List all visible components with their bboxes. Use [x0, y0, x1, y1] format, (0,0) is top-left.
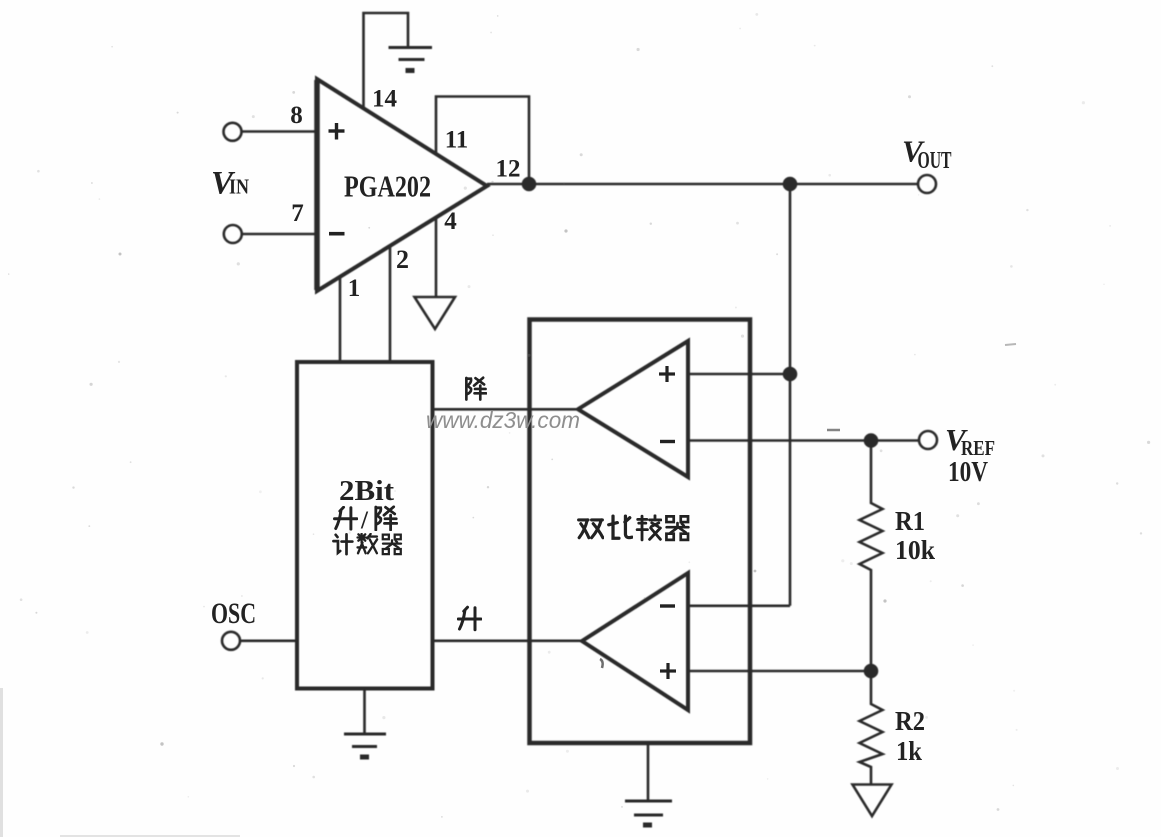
- svg-text:www.dz3w.com: www.dz3w.com: [426, 407, 580, 433]
- svg-text:R2: R2: [895, 706, 925, 736]
- wire comp2 minus: [688, 604, 790, 607]
- opamp plus sign: [329, 123, 345, 140]
- node R1-R2 junction: [865, 665, 877, 677]
- wire pin4: [435, 217, 438, 296]
- terminal circle input+: [224, 123, 242, 141]
- resistor R2: [860, 671, 883, 784]
- ground (top): [389, 48, 433, 71]
- label jiang (down output): [466, 378, 486, 400]
- arrow ground R2: [853, 785, 892, 817]
- wire pin2: [389, 246, 392, 362]
- wire OSC: [241, 639, 297, 642]
- label jishuqi counter line3: [333, 534, 401, 554]
- comparator A1 plus sign: [659, 366, 675, 382]
- wire comp1 minus to VREF: [688, 439, 918, 442]
- wire opamp left edge emphasis: [314, 80, 320, 290]
- arrow ground pin4: [415, 297, 456, 329]
- svg-text:14: 14: [372, 86, 398, 113]
- wire comp1 plus: [688, 373, 790, 376]
- svg-text:PGA202: PGA202: [344, 169, 431, 204]
- svg-text:12: 12: [496, 156, 521, 183]
- wire comp2 plus: [688, 670, 871, 673]
- wire counter ground: [363, 689, 366, 734]
- wire pin14 to ground: [364, 13, 409, 107]
- svg-text:4: 4: [444, 208, 457, 235]
- comparator A1 minus sign: [660, 440, 675, 443]
- svg-text:OUT: OUT: [918, 148, 952, 174]
- resistor R1: [860, 441, 883, 672]
- node output junction: [784, 178, 796, 190]
- wire sheng (up): [433, 639, 583, 642]
- svg-text:IN: IN: [229, 175, 249, 199]
- wire pin1: [339, 276, 342, 362]
- svg-text:10V: 10V: [948, 456, 988, 488]
- svg-text:1: 1: [348, 275, 361, 302]
- svg-text:2Bit: 2Bit: [339, 476, 395, 507]
- svg-text:1k: 1k: [896, 736, 922, 766]
- svg-text:2: 2: [396, 245, 409, 274]
- svg-text:7: 7: [291, 200, 304, 227]
- wire pin7 input: [242, 233, 317, 236]
- svg-text:8: 8: [290, 102, 303, 129]
- ground (comparator): [625, 801, 672, 825]
- comparator A2 triangle: [582, 573, 688, 710]
- terminal circle OSC: [222, 632, 240, 650]
- svg-text:11: 11: [445, 127, 469, 154]
- node pin12 junction: [523, 178, 535, 190]
- wire output: [487, 183, 917, 186]
- terminal circle input-: [224, 225, 242, 243]
- node comp1 plus junction: [784, 368, 796, 380]
- wire comparator ground: [647, 743, 650, 801]
- label sheng (up output): [458, 607, 481, 630]
- wire pin8 input: [242, 130, 317, 133]
- terminal circle VOUT: [918, 175, 936, 193]
- svg-text:/: /: [360, 507, 369, 534]
- svg-text:OSC: OSC: [211, 597, 256, 630]
- label sheng/jiang counter line2: [334, 507, 396, 534]
- wire pin11 feedback to pin12: [436, 97, 529, 185]
- comparator box: [530, 320, 751, 744]
- svg-text:10k: 10k: [895, 535, 935, 565]
- counter box: [297, 362, 433, 689]
- wire vout down: [789, 184, 792, 606]
- comparator A2 minus sign: [660, 604, 675, 607]
- opamp minus sign: [329, 232, 345, 236]
- node R1 top junction: [865, 435, 877, 447]
- comparator A2 plus sign: [660, 663, 676, 679]
- op-amp U1 PGA202 triangle: [317, 79, 487, 291]
- wire jiang (down): [433, 408, 579, 411]
- comparator A1 triangle: [578, 341, 688, 477]
- label shuangbijiaoqi: [579, 516, 689, 540]
- terminal circle VREF: [919, 431, 937, 449]
- svg-text:R1: R1: [895, 506, 925, 536]
- ground (counter): [344, 734, 386, 757]
